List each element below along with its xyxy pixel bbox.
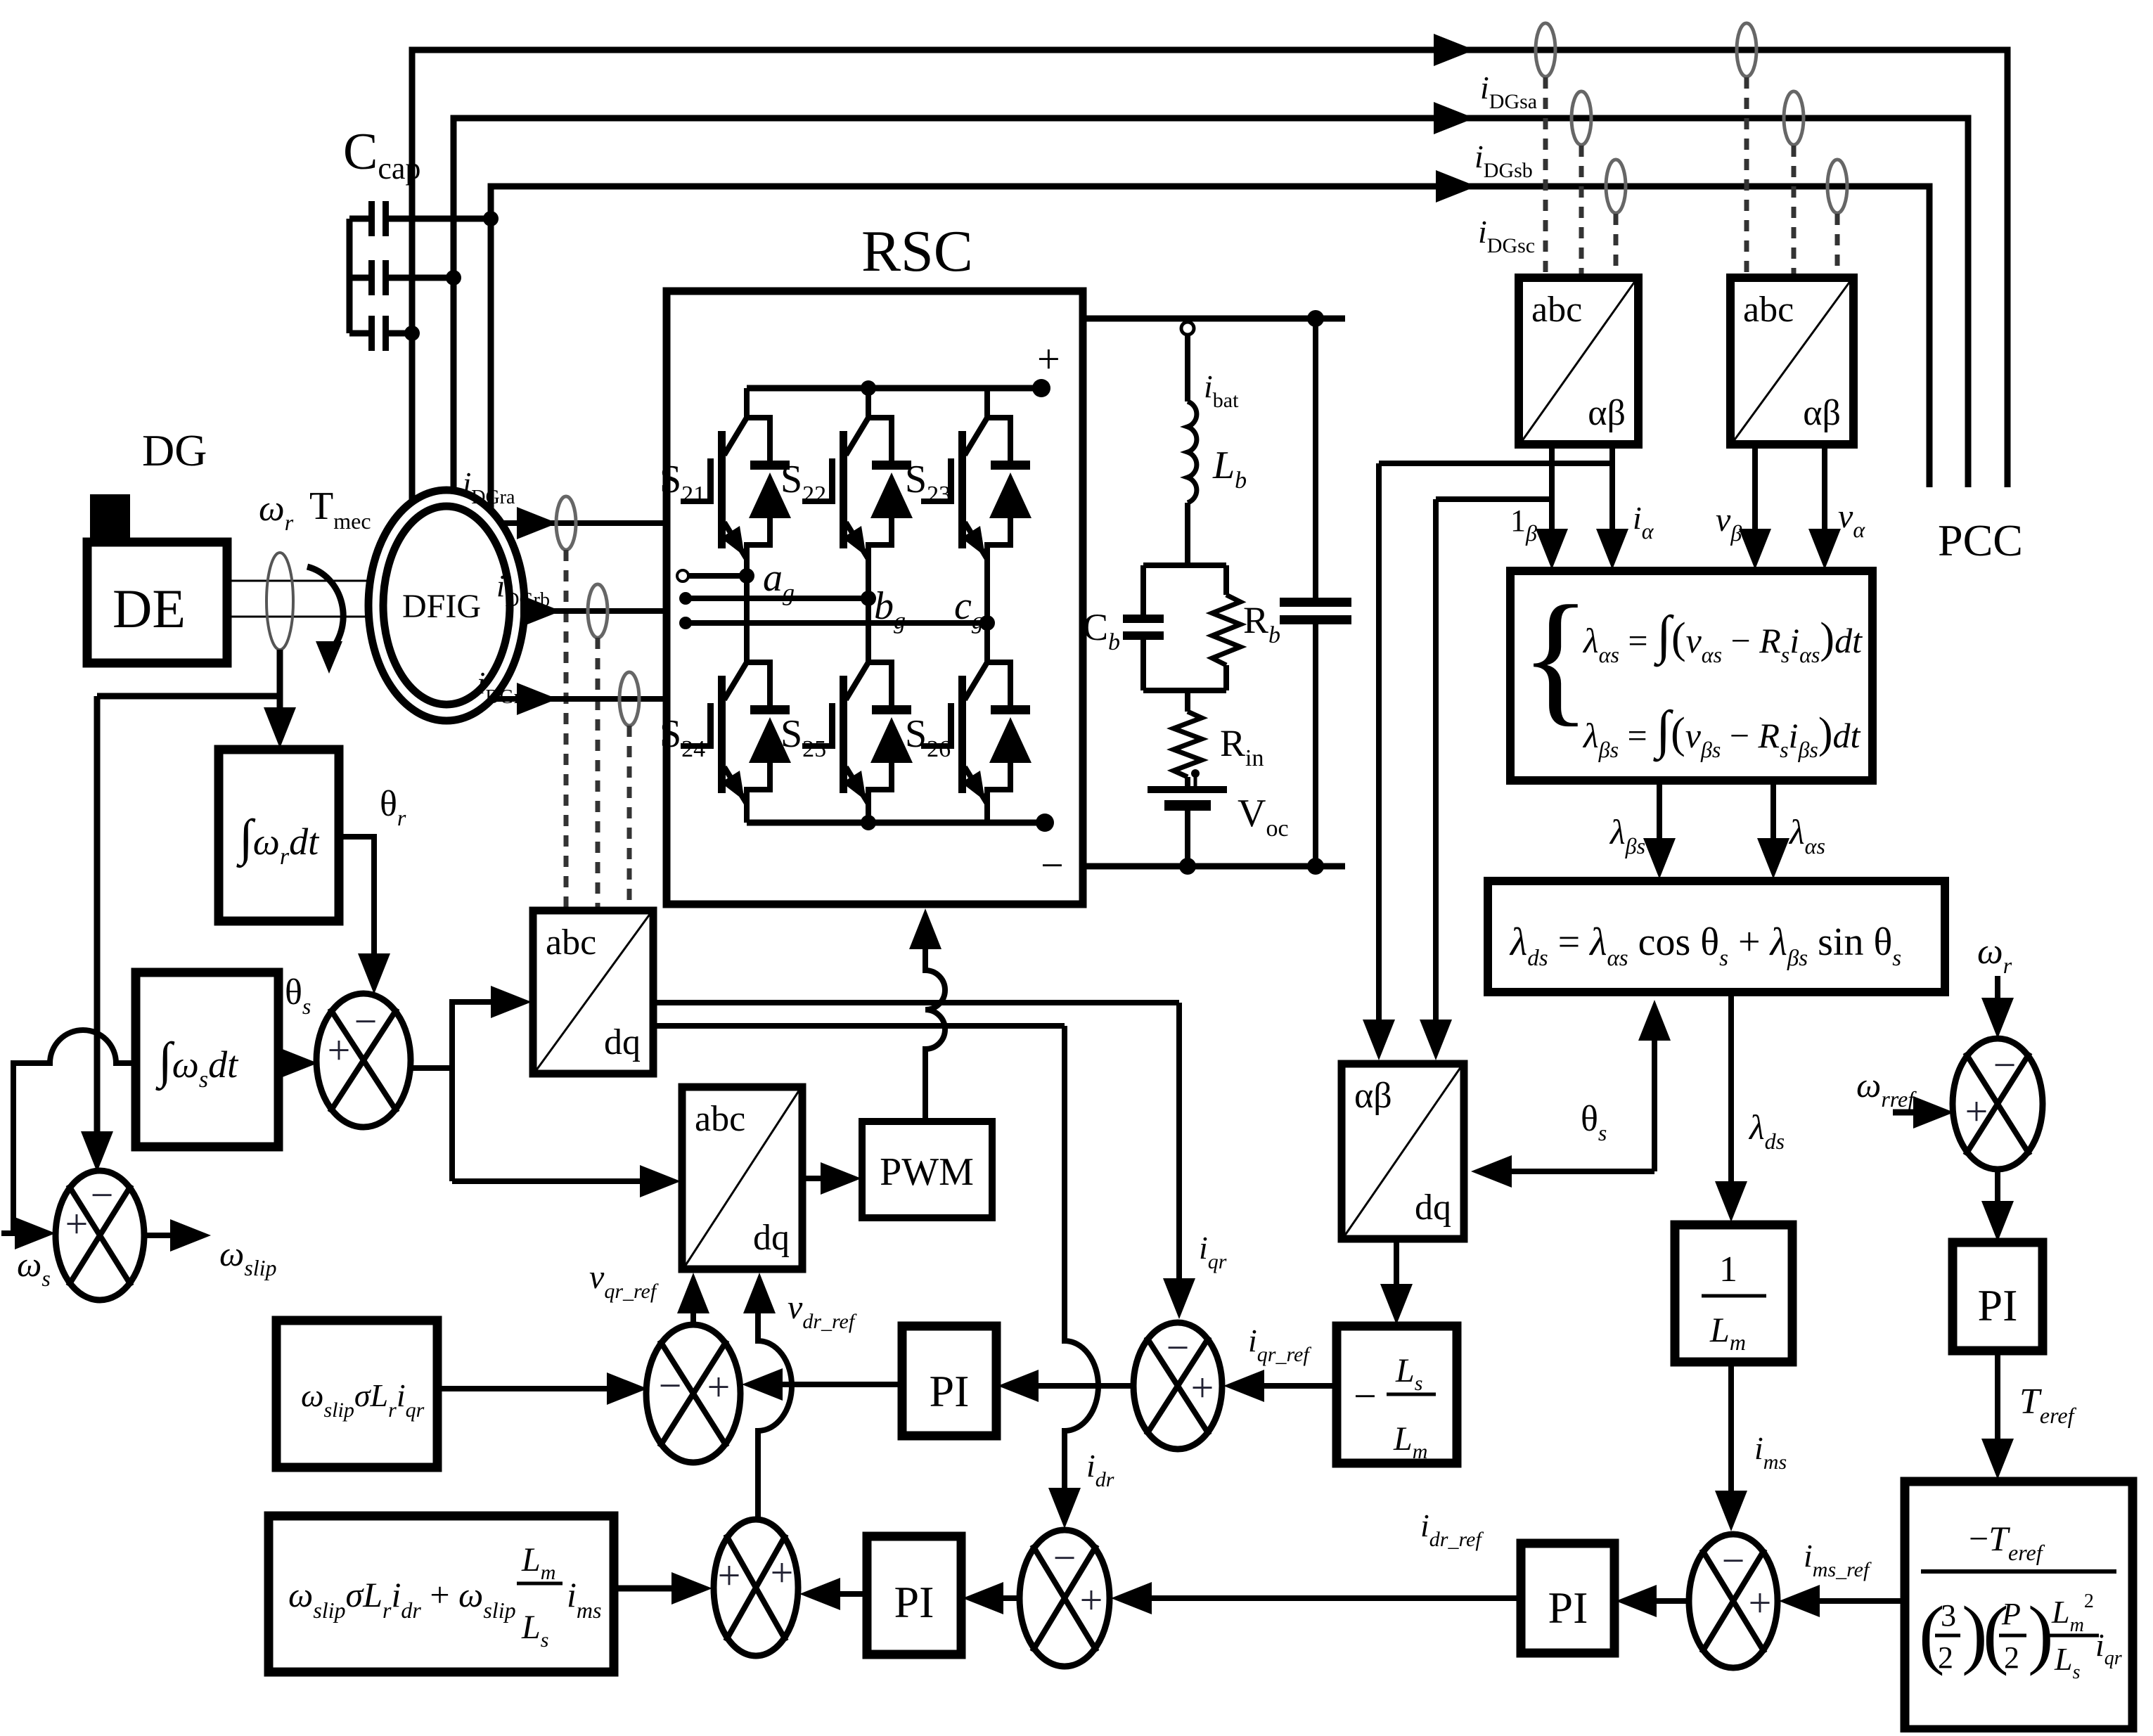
diode triangle [749, 717, 791, 763]
arrow into plus junction [671, 1572, 712, 1605]
wire gate lead [681, 499, 710, 504]
wire upper emitter to phase node a [744, 558, 750, 576]
wire i_ms down [1728, 1362, 1734, 1492]
arrow into q PI [998, 1370, 1039, 1402]
wire i_qr_ref into q junction [1260, 1383, 1337, 1389]
block big compensation omega_slip sigma Lr idr + ... [269, 1516, 614, 1672]
block PWM [862, 1121, 992, 1218]
wire from slip-compensation into v_qr junction [437, 1386, 608, 1391]
wire diode anode lead [987, 517, 1010, 559]
arrow lambda_beta_s into lambda_ds box [1643, 838, 1676, 879]
wire ab-dq output down [1394, 1239, 1399, 1288]
arrow lambda_alpha_s into lambda_ds box [1757, 838, 1789, 879]
wire lambda_beta_s output [1657, 780, 1662, 838]
wire theta_s into ab-dq and lambda_ds box [1508, 1169, 1654, 1174]
wire DC-link capacitor branch [1313, 319, 1318, 599]
block abc to alpha-beta (stator currents) [1519, 278, 1638, 444]
arrow omega_r into slip junction [81, 1131, 113, 1172]
wire phase node to lower collector leg b [866, 598, 871, 634]
summing junction v_dr_ref (plus plus) [714, 1519, 798, 1656]
svg-text:+: + [707, 1364, 731, 1410]
svg-text:−: − [1041, 842, 1064, 888]
wire i_dr horizontal from abc-dq [653, 1023, 1065, 1029]
arrow theta_s into ab-dq [1471, 1155, 1512, 1188]
wire speed junction to PI [1995, 1169, 2000, 1204]
arrow into PWM abc-dq block [640, 1165, 681, 1197]
svg-text:αβ: αβ [1588, 393, 1626, 433]
diode cathode bar [872, 705, 911, 714]
svg-text:abc: abc [546, 922, 596, 963]
capacitor row 3 wire + plates [349, 330, 370, 337]
arrow into omega_r integrator [264, 707, 296, 748]
wire phase node to lower collector leg c [984, 623, 990, 634]
wire DC+ link to battery branch [1083, 316, 1345, 322]
wire gate lead [921, 499, 951, 504]
wire i_beta long vertical to ab-dq block [1433, 499, 1439, 1021]
block integral omega_s dt [136, 972, 278, 1147]
block RSC converter outline [667, 291, 1083, 904]
diode triangle [870, 472, 913, 518]
dashed sensor wire 2c [1835, 214, 1840, 276]
arrow into plus junction right [799, 1578, 840, 1610]
arrow T_eref into torque box [1981, 1439, 2014, 1479]
svg-text:+: + [718, 1552, 741, 1598]
node dot DC+ b-leg [861, 380, 876, 396]
svg-text:+: + [1191, 1365, 1214, 1410]
wire phase b internal [686, 596, 868, 601]
svg-text:): ) [2028, 1590, 2054, 1676]
wire abc-dq to PWM [802, 1176, 824, 1181]
arrow rotor a [517, 507, 558, 539]
diode triangle [989, 472, 1031, 518]
wire stator phase c (i_DGsc) [491, 186, 1929, 512]
wire omega_slip output [144, 1233, 174, 1238]
node dot row1 on line c vertical [483, 211, 499, 226]
diode cathode bar [750, 705, 790, 714]
wire v_alpha output [1822, 444, 1827, 532]
wire RC box to R_in [1185, 690, 1190, 712]
summing junction q-axis current [1133, 1323, 1222, 1449]
node dot battery bottom [1179, 858, 1196, 875]
current sensor set 1 on line b [1572, 91, 1591, 145]
arrow into 1/Lm block [1715, 1181, 1747, 1222]
wire emitter angled with arrow [965, 767, 987, 804]
arrow i_dr into d junction [1048, 1488, 1081, 1529]
arrow v_qr_ref into abc-dq block [677, 1273, 709, 1313]
block abc to dq (voltage refs) [682, 1087, 802, 1269]
wire PI d to plus junction [837, 1591, 867, 1597]
wire shaft upper [227, 580, 385, 582]
arrow into v_qr junction minus [607, 1372, 648, 1405]
svg-text:DE: DE [113, 578, 186, 639]
DE exhaust black square [90, 494, 130, 542]
wire omega_r into speed junction [1995, 976, 2000, 1000]
resistor R_in zigzag [1174, 712, 1202, 777]
svg-text:P: P [2001, 1597, 2021, 1631]
node dot cap bottom [1307, 858, 1324, 875]
block omega_slip sigma Lr iqr [276, 1320, 437, 1467]
wire gate lead [921, 743, 951, 749]
wire ms junction to PI [1652, 1598, 1689, 1604]
block PI magnetizing [1521, 1543, 1614, 1653]
wire battery branch upper [1185, 335, 1190, 401]
arrow on stator line a [1434, 34, 1474, 66]
wire collector angled [724, 662, 747, 700]
svg-text:−: − [659, 1363, 682, 1408]
wire upper emitter to phase node c [984, 558, 990, 623]
current sensor set 2 on line c [1827, 160, 1847, 213]
DC-link capacitor plates [1280, 598, 1351, 607]
svg-text:+: + [1965, 1088, 1988, 1134]
node dot phase a_g [739, 568, 754, 584]
dashed sensor wire 1b [1579, 146, 1584, 276]
wire rotor line b to RSC [520, 608, 667, 614]
wire stator phase a (i_DGsa) from DFIG top to PCC [412, 50, 2007, 517]
svg-text:−: − [1354, 1373, 1377, 1419]
svg-text:2: 2 [2004, 1640, 2019, 1675]
wire diode anode lead [868, 761, 892, 804]
svg-text:DG: DG [142, 425, 207, 475]
block PI q-axis [902, 1326, 996, 1436]
svg-text:+: + [1037, 336, 1060, 382]
node dot phase c left end [679, 617, 692, 629]
wire tee i_beta to left vertical [1436, 496, 1552, 502]
arrow theta_r into theta junction [358, 953, 390, 994]
transistor body bar [958, 431, 966, 548]
dashed sensor wire 2a to voltage abc block [1744, 77, 1749, 276]
block 1/Lm [1675, 1225, 1792, 1362]
capacitor C_b plates [1123, 615, 1164, 623]
wire q junction to PI [1035, 1383, 1133, 1389]
block lambda_ds equation [1488, 881, 1945, 992]
svg-text:DFIG: DFIG [402, 588, 481, 625]
arrow theta into abc-dq block [491, 986, 532, 1018]
arrow i_beta into flux box [1536, 529, 1568, 570]
summing junction magnetizing current [1689, 1534, 1778, 1668]
svg-text:dq: dq [1415, 1188, 1451, 1228]
current sensor set 1 on line a [1536, 23, 1555, 77]
node dot DC- b-leg [861, 815, 876, 830]
block abc to alpha-beta (PCC voltages) [1730, 278, 1853, 444]
wire emitter angled with arrow [846, 767, 868, 804]
capacitor row 2 wire + plates [349, 275, 370, 281]
svg-text:abc: abc [1743, 290, 1794, 330]
wire i_beta output [1549, 444, 1555, 532]
svg-text:abc: abc [1531, 290, 1582, 330]
wire i_dr_ref long line [1149, 1595, 1521, 1601]
wire upper emitter to phase node b [866, 558, 871, 598]
transistor body bar [718, 431, 726, 548]
arrow i_qr_ref [1223, 1370, 1264, 1402]
svg-text:αβ: αβ [1354, 1076, 1392, 1116]
battery cell V_oc plates [1148, 786, 1227, 793]
arrow i_ms into ms junction [1715, 1491, 1747, 1531]
wire lambda_alpha_s output [1770, 780, 1776, 838]
arrow omega_slip output [170, 1219, 211, 1252]
arrow i_alpha into ab-dq block [1363, 1020, 1395, 1060]
wire gate lead [802, 499, 832, 504]
wire diode anode lead [868, 517, 892, 559]
arrow into -Ls/Lm block [1380, 1284, 1413, 1325]
wire collector stub and diode cathode lead [987, 388, 1010, 464]
wire collector stub and diode cathode lead [747, 388, 770, 464]
current sensor set 2 on line a [1737, 23, 1756, 77]
wire gate lead [802, 743, 832, 749]
transistor body bar [958, 676, 966, 793]
arrow into PWM [821, 1162, 861, 1195]
node dot cap top [1307, 310, 1324, 327]
gate bar [707, 703, 714, 749]
block PI speed [1953, 1242, 2043, 1351]
wire theta branch to PWM abc-dq block [452, 1178, 641, 1184]
wire omega_r branch left [97, 693, 280, 700]
diode triangle [870, 717, 913, 763]
arrow omega_r into speed junction [1981, 998, 2014, 1039]
svg-text:PI: PI [1978, 1280, 2018, 1330]
arrow i_dr_ref into d junction [1111, 1582, 1152, 1614]
wire v_dr_ref up with hop over PI line [758, 1308, 792, 1519]
transistor body bar [718, 676, 726, 793]
wire shaft lower [227, 616, 385, 618]
block DE diesel engine [87, 542, 227, 663]
wire omega_s input with hop over omega_r branch [13, 1030, 136, 1233]
svg-text:dq: dq [604, 1022, 641, 1062]
arrow theta_s up into lambda_ds box [1638, 1000, 1671, 1041]
wire collector stub and diode cathode lead [868, 633, 892, 709]
arrow PI q output [742, 1368, 783, 1401]
wire collector stub and diode cathode lead [987, 633, 1010, 709]
diode cathode bar [750, 461, 790, 470]
node dot row2 on line b vertical [446, 270, 461, 285]
node dot row3 on line a vertical [404, 326, 420, 341]
wire theta up branch to abc-dq [452, 1002, 494, 1068]
arrow into PI d [963, 1582, 1003, 1614]
wire collector angled [724, 418, 747, 455]
wire inductor to RC box [1185, 503, 1190, 565]
wire PI q output to v_qr junction [779, 1382, 902, 1387]
speed sensor ellipse on shaft [266, 553, 293, 650]
svg-text:−: − [1167, 1325, 1190, 1370]
wire phase c internal [686, 620, 987, 626]
arrow v_beta into flux box [1739, 529, 1771, 570]
svg-text:−: − [91, 1172, 114, 1218]
wire i_ms_ref from torque box [1815, 1598, 1905, 1604]
current sensor set 1 on line c [1606, 160, 1626, 213]
summing junction speed [1953, 1039, 2043, 1169]
svg-text:1: 1 [1719, 1249, 1737, 1290]
svg-text:RSC: RSC [861, 219, 973, 284]
wire rotor line a to RSC [501, 520, 667, 526]
wire T_eref down [1995, 1351, 2000, 1441]
wire lower emitter to DC- bus leg b [866, 802, 871, 823]
block alpha-beta to dq [1342, 1064, 1464, 1239]
arrow i_ms_ref into ms junction [1779, 1585, 1820, 1617]
diode cathode bar [872, 461, 911, 470]
dashed sensor wire 2b [1792, 146, 1797, 276]
sensor rotor a [556, 496, 576, 550]
resistor R_b zigzag [1223, 565, 1229, 595]
svg-text:PWM: PWM [880, 1150, 974, 1194]
wire d junction to PI d [1000, 1595, 1020, 1601]
wire theta_s out of integrator [278, 1060, 290, 1066]
arrow PWM gating into RSC [909, 908, 941, 949]
arrow v_dr_ref into abc-dq block [743, 1273, 776, 1313]
block integral omega_r dt [219, 750, 339, 921]
diode cathode bar [991, 705, 1030, 714]
wire omega_s stub [1, 1230, 28, 1236]
svg-text:−: − [1722, 1538, 1745, 1583]
svg-text:−: − [1053, 1535, 1076, 1581]
svg-text:PI: PI [1548, 1583, 1588, 1633]
arrow rotor b [520, 595, 561, 627]
wire i_qr horizontal from abc-dq [653, 1000, 1179, 1005]
svg-text:+: + [1749, 1580, 1772, 1626]
wire i_dr vertical with hop over PI line [1065, 1026, 1098, 1491]
curved arrow T_mec [307, 567, 343, 654]
wire RSC DC+ bus [747, 385, 1041, 392]
arrow omega_s into slip junction [15, 1217, 56, 1249]
svg-text:PCC: PCC [1938, 515, 2023, 565]
wire DC- link bottom [1083, 863, 1345, 870]
wire PWM to RSC with hops over i_qr i_dr lines [925, 949, 945, 1121]
block torque to current reference [1905, 1481, 2133, 1730]
wire lower emitter to DC- bus leg c [984, 802, 990, 823]
summing junction d-axis current [1020, 1530, 1110, 1666]
wire omega_rref into junction [1893, 1110, 1915, 1116]
wire v_qr_ref up to abc-dq [690, 1309, 696, 1325]
arrow omega_rref [1913, 1096, 1954, 1129]
wire collector angled [846, 418, 868, 455]
wire i_qr vertical [1176, 1003, 1182, 1278]
arrow into ms PI [1616, 1585, 1657, 1617]
svg-text:+: + [771, 1550, 794, 1595]
wire battery to DC- bus [1185, 811, 1190, 866]
svg-text:PI: PI [894, 1577, 934, 1627]
machine DFIG inner ellipse [383, 506, 510, 705]
arrow on stator line c [1436, 170, 1477, 202]
machine DFIG outer ellipse [368, 490, 525, 721]
sensor rotor b [588, 584, 608, 638]
wire emitter angled with arrow [965, 522, 987, 559]
svg-text:αβ: αβ [1803, 393, 1841, 433]
wire RSC DC- bus [747, 820, 1045, 826]
wire diode anode lead [747, 517, 770, 559]
inductor L_b coil [1188, 401, 1197, 503]
wire lambda_ds down to 1/Lm [1728, 992, 1734, 1181]
wire theta output [411, 1068, 452, 1181]
wire lower emitter to DC- bus leg a [744, 802, 750, 823]
node dot DC+ end [1032, 379, 1050, 397]
node dot phase b_g [861, 591, 876, 606]
wire i_alpha long vertical to ab-dq block [1376, 463, 1382, 1021]
wire collector stub and diode cathode lead [747, 633, 770, 709]
summing junction v_qr_ref [646, 1325, 740, 1462]
svg-text:dq: dq [753, 1218, 790, 1258]
svg-text:+: + [328, 1027, 351, 1073]
node dot phase b left end [679, 592, 692, 605]
dashed sensor wire 1c [1614, 214, 1619, 276]
wire diode anode lead [987, 761, 1010, 804]
svg-text:−: − [354, 998, 378, 1044]
svg-text:3: 3 [1941, 1598, 1956, 1633]
block PI d-axis [867, 1536, 961, 1654]
terminal ring phase a [677, 570, 688, 581]
diode triangle [989, 717, 1031, 763]
wire stator phase b (i_DGsb) [454, 118, 1968, 505]
wire gate lead [681, 743, 710, 749]
svg-text:−: − [1993, 1042, 2017, 1088]
wire R_in to battery cell [1185, 777, 1190, 787]
wire collector angled [965, 418, 987, 455]
arrow rotor c [517, 683, 558, 715]
svg-text:+: + [65, 1201, 89, 1247]
arrow i_qr into q junction [1163, 1278, 1195, 1319]
transistor body bar [840, 676, 847, 793]
gate bar [948, 458, 954, 504]
wire phase a internal [686, 573, 747, 579]
svg-text:2: 2 [1938, 1640, 1953, 1675]
current sensor set 2 on line b [1784, 91, 1804, 145]
gate bar [829, 458, 835, 504]
wire emitter angled with arrow [724, 767, 747, 804]
wire big compensation box to plus junction [614, 1586, 674, 1592]
summing junction theta_s minus theta_r [316, 994, 411, 1127]
arrow i_alpha into flux box [1596, 529, 1628, 570]
wire omega_r branch down to slip junction [94, 696, 101, 1133]
wire emitter angled with arrow [846, 522, 868, 559]
wire collector stub and diode cathode lead [868, 388, 892, 464]
diode triangle [749, 472, 791, 518]
terminal ring battery top [1181, 322, 1194, 335]
svg-text:{: { [1520, 576, 1591, 739]
capacitor bank left rail [347, 219, 353, 333]
wire emitter angled with arrow [724, 522, 747, 559]
wire theta_s vertical [1652, 1039, 1657, 1171]
transistor body bar [840, 431, 847, 548]
diode cathode bar [991, 461, 1030, 470]
arrow v_alpha into flux box [1808, 529, 1841, 570]
wire tee i_alpha to left vertical [1379, 461, 1612, 466]
node dot DC- end [1036, 814, 1054, 832]
dashed rotor a to abc-dq block [564, 550, 569, 909]
gate bar [948, 703, 954, 749]
wire omega_r drop to integrator [277, 650, 283, 710]
arrow i_beta into ab-dq block [1420, 1020, 1452, 1060]
arrow theta_s into theta junction [277, 1047, 318, 1079]
svg-text:PI: PI [930, 1366, 970, 1416]
dashed rotor b to abc-dq block [596, 638, 600, 909]
block battery parallel RC loop [1143, 562, 1226, 568]
wire phase node to lower collector leg a [744, 576, 750, 634]
block abc to dq (rotor currents) [533, 911, 653, 1074]
wire collector angled [846, 662, 868, 700]
wire collector angled [965, 662, 987, 700]
arrow on stator line b [1434, 102, 1474, 134]
summing junction omega_slip [56, 1171, 144, 1300]
capacitor row 1 wire + plates [349, 216, 370, 222]
node dot phase c_g [979, 615, 995, 631]
block flux linkage integral equations [1510, 571, 1872, 780]
svg-text:+: + [1080, 1577, 1103, 1623]
block -Ls/Lm [1337, 1326, 1457, 1463]
dashed rotor c to abc-dq block [627, 726, 632, 909]
gate bar [829, 703, 835, 749]
gate bar [707, 458, 714, 504]
arrow into speed PI [1981, 1201, 2014, 1242]
svg-text:abc: abc [695, 1099, 745, 1139]
wire diode anode lead [747, 761, 770, 804]
sensor rotor c [619, 672, 639, 726]
